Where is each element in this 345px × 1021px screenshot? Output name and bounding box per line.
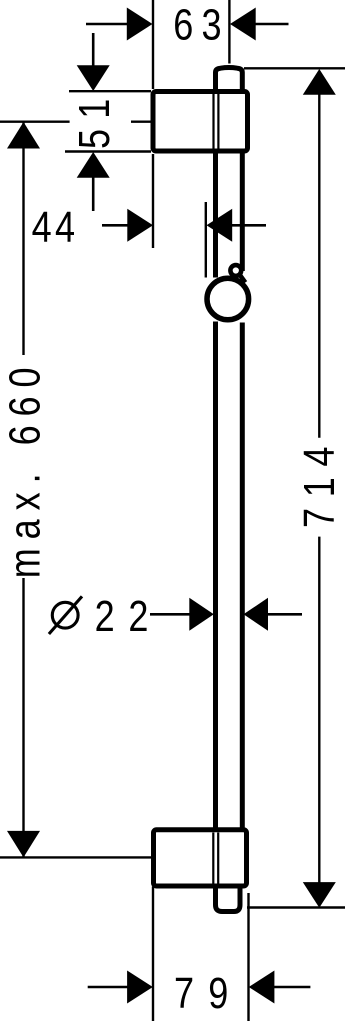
wall bracket bottom (154, 830, 247, 886)
dim 44 left arrow (102, 209, 153, 242)
dim 79 left arrow (88, 971, 153, 1004)
svg-text:63: 63 (173, 0, 230, 49)
svg-text:22: 22 (95, 591, 163, 640)
ext line 44 left (152, 154, 154, 248)
ext line bracket bottom (51 dim) (65, 150, 151, 152)
ext line bracket centre left (max660/51) (0, 120, 151, 122)
dim Ø22 leader (150, 613, 191, 616)
ext line rail top (714 dim) (244, 67, 345, 69)
dim line 714 (318, 93, 320, 884)
max660 bottom arrow (7, 831, 40, 858)
dim 63 right arrow (230, 8, 289, 41)
rail bottom end (216, 884, 241, 912)
svg-text:79: 79 (174, 969, 243, 1018)
ext line 44 right (slider edge) (205, 202, 207, 278)
ext line bracket left edge (63/51 dims) (152, 0, 154, 89)
ext line 79 right (247, 893, 249, 1021)
dim 51 bottom arrow (77, 152, 110, 211)
ext line rail bottom (714 dim) (247, 906, 345, 908)
label Ø (diameter symbol) (49, 596, 82, 634)
dim 44 right arrow (207, 209, 267, 242)
dim 51 top arrow (77, 33, 110, 91)
dim Ø22 left arrow (189, 598, 214, 631)
dim line max660 (22, 122, 24, 857)
rail tube upper segment (216, 149, 243, 278)
hidden rail lines in top bracket (214, 94, 219, 149)
rail tube main segment (216, 322, 243, 832)
714 bottom arrow (303, 882, 336, 908)
dim 63 left arrow (86, 8, 153, 41)
ext line rail centre (63 dim) (228, 0, 230, 64)
slider hook (230, 265, 245, 282)
svg-text:714: 714 (295, 436, 344, 528)
dim 79 right arrow (249, 971, 311, 1004)
ext line bottom bracket centre (max660) (0, 856, 151, 858)
wall bracket top (153, 92, 248, 152)
ext line 79 left (152, 887, 154, 1021)
slider ring (207, 278, 249, 320)
svg-text:51: 51 (69, 89, 118, 149)
hidden rail lines in bottom bracket (213, 833, 218, 884)
dim Ø22 right arrow (244, 598, 303, 631)
714 top arrow (303, 69, 336, 95)
ext line bracket top (51 dim) (69, 90, 151, 92)
max660 top arrow (7, 122, 40, 149)
svg-text:max. 660: max. 660 (0, 358, 49, 578)
svg-text:44: 44 (32, 203, 79, 252)
rail cap (216, 68, 243, 95)
